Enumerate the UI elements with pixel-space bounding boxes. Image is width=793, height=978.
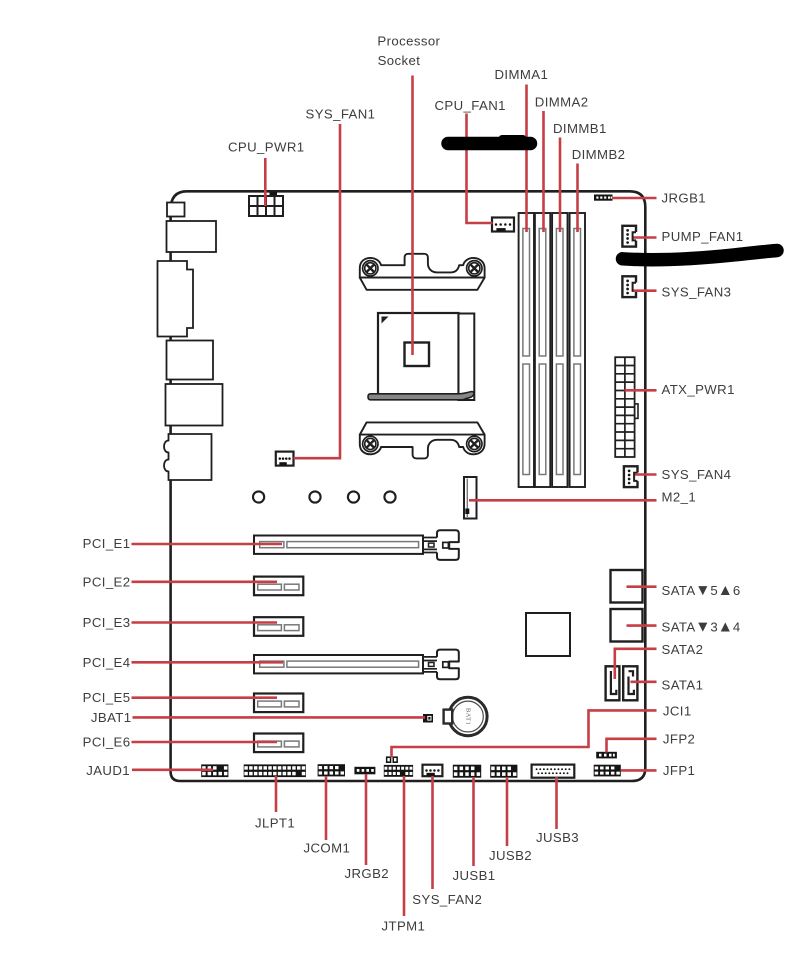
leader line JLPT1 [275, 776, 278, 812]
io port A [167, 203, 185, 217]
memory slot DIMMA2 [535, 213, 550, 487]
svg-text:BAT1: BAT1 [464, 708, 471, 725]
memory slot DIMMB1 [552, 213, 567, 487]
svg-text:JUSB3: JUSB3 [536, 830, 579, 845]
svg-text:SATA▼5▲6: SATA▼5▲6 [662, 582, 741, 599]
fan header CPU_FAN1 [492, 218, 514, 232]
socket center square [405, 343, 430, 367]
connector SATA 5/6 [611, 570, 643, 603]
fan header PUMP_FAN1 [622, 226, 637, 247]
svg-text:PCI_E1: PCI_E1 [83, 536, 131, 551]
slot PCI_E2 x1 [254, 577, 303, 596]
svg-text:DIMMB1: DIMMB1 [553, 121, 607, 136]
chipset [526, 613, 570, 656]
leader line JUSB2 [506, 777, 509, 846]
leader line JTPM1 [403, 776, 406, 916]
header JTPM1 [384, 765, 413, 777]
leader line DIMMB1 [559, 138, 562, 233]
slot PCI_E1 x16 [254, 530, 459, 560]
connector SATA2 [606, 666, 620, 700]
leader line JUSB1 [472, 777, 475, 866]
svg-text:SATA▼3▲4: SATA▼3▲4 [662, 619, 741, 636]
slot PCI_E5 x1 [254, 694, 303, 713]
svg-text:JFP1: JFP1 [663, 763, 695, 778]
svg-text:DIMMA2: DIMMA2 [535, 94, 589, 109]
svg-text:PUMP_FAN1: PUMP_FAN1 [662, 229, 744, 244]
header JAUD1 [201, 764, 228, 777]
svg-text:JTPM1: JTPM1 [382, 919, 426, 934]
svg-text:PCI_E3: PCI_E3 [83, 615, 131, 630]
svg-text:CPU_PWR1: CPU_PWR1 [228, 139, 304, 154]
svg-text:SATA1: SATA1 [662, 677, 704, 692]
leader line SATA2 [615, 649, 657, 679]
svg-text:DIMMA1: DIMMA1 [495, 67, 549, 82]
mounting hole 2 [309, 491, 320, 502]
header JUSB2 [490, 765, 517, 778]
leader line DIMMA1 [525, 85, 528, 233]
leader line PCI_E3 [132, 621, 278, 624]
fan header SYS_FAN3 [622, 276, 637, 297]
socket base bar [368, 392, 474, 400]
bracket screw top-left [363, 261, 378, 276]
leader line PCI_E6 [132, 741, 278, 744]
svg-text:JFP2: JFP2 [663, 732, 695, 747]
leader line SYS_FAN1 [294, 124, 341, 458]
jumper JBAT1 [423, 714, 433, 723]
svg-text:Processor: Processor [377, 34, 440, 49]
mounting hole 4 [384, 491, 395, 502]
svg-text:JAUD1: JAUD1 [86, 763, 130, 778]
svg-text:PCI_E4: PCI_E4 [83, 655, 131, 670]
leader line JCOM1 [325, 776, 328, 840]
fan header SYS_FAN4 [624, 466, 639, 487]
header JRGB1 [594, 195, 613, 201]
leader line JUSB3 [555, 777, 558, 829]
processor socket body [378, 313, 474, 400]
svg-text:Socket: Socket [378, 53, 421, 68]
memory slot DIMMB2 [570, 213, 585, 487]
leader line SATA 5/6 [627, 585, 657, 588]
svg-text:JRGB1: JRGB1 [662, 191, 707, 206]
header JCI1 pins [386, 756, 398, 763]
board outline [171, 191, 646, 781]
svg-text:CPU_FAN1: CPU_FAN1 [435, 98, 506, 113]
slot PCI_E3 x1 [254, 617, 303, 636]
svg-text:SYS_FAN3: SYS_FAN3 [662, 285, 732, 300]
svg-text:JRGB2: JRGB2 [345, 866, 390, 881]
svg-text:PCI_E2: PCI_E2 [83, 574, 131, 589]
svg-text:JCI1: JCI1 [663, 704, 692, 719]
connector SATA1 [623, 666, 637, 700]
slot PCI_E6 x1 [254, 734, 303, 753]
svg-text:JUSB1: JUSB1 [453, 868, 496, 883]
leader line PCI_E1 [132, 543, 283, 546]
svg-text:PCI_E5: PCI_E5 [83, 690, 131, 705]
leader line SATA1 [631, 680, 657, 683]
svg-text:PCI_E6: PCI_E6 [83, 735, 131, 750]
svg-text:M2_1: M2_1 [662, 490, 697, 505]
svg-text:DIMMB2: DIMMB2 [572, 147, 626, 162]
leader line SYS_FAN4 [635, 473, 657, 476]
svg-text:JCOM1: JCOM1 [304, 840, 351, 855]
leader line PUMP_FAN1 [634, 236, 657, 239]
leader line JFP1 [621, 769, 657, 772]
connector ATX_PWR1 [615, 357, 638, 457]
leader line JAUD1 [132, 768, 213, 771]
header JUSB1 [453, 765, 481, 778]
mounting hole 3 [348, 491, 359, 502]
header JCOM1 [318, 764, 345, 776]
leader line Processor Socket [411, 76, 414, 356]
leader line ATX_PWR1 [625, 389, 657, 392]
mounting hole 1 [253, 491, 264, 502]
svg-text:SYS_FAN1: SYS_FAN1 [306, 107, 376, 122]
fan header SYS_FAN2 [423, 765, 443, 777]
slot PCI_E4 x16 [254, 650, 459, 680]
header JFP1 [594, 765, 621, 777]
io port E [166, 384, 223, 426]
svg-text:JBAT1: JBAT1 [91, 710, 132, 725]
cpu cooler bracket top [360, 254, 485, 290]
header JRGB2 [354, 767, 375, 775]
battery BAT1 [444, 697, 487, 735]
svg-text:JLPT1: JLPT1 [255, 816, 295, 831]
bracket screw bottom-right [467, 436, 482, 451]
connector SATA 3/4 [611, 609, 643, 642]
svg-text:JUSB2: JUSB2 [489, 848, 532, 863]
leader line DIMMA2 [542, 111, 545, 232]
header JUSB3 [532, 765, 575, 778]
cpu cooler bracket bottom [360, 422, 485, 458]
marker redaction 2 [623, 251, 778, 260]
leader line PCI_E2 [132, 580, 278, 583]
leader line PCI_E5 [132, 696, 278, 699]
leader line DIMMB2 [576, 164, 579, 233]
leader line SYS_FAN3 [634, 289, 657, 292]
connector CPU_PWR1 [249, 192, 283, 216]
io port F audio jacks [164, 434, 212, 480]
memory slot DIMMA1 [519, 213, 534, 487]
leader line M2_1 [469, 499, 657, 502]
leader line JRGB2 [365, 774, 368, 865]
bracket screw top-right [467, 261, 482, 276]
bracket screw bottom-left [363, 436, 378, 451]
leader line SYS_FAN2 [431, 776, 434, 889]
io port B [167, 221, 217, 252]
svg-text:ATX_PWR1: ATX_PWR1 [662, 382, 735, 397]
connector M2_1 [464, 477, 477, 519]
leader line SATA 3/4 [627, 624, 657, 627]
io port C [158, 261, 194, 337]
leader line JCI1 [392, 710, 657, 757]
leader line JFP2 [607, 739, 657, 753]
fan header SYS_FAN1 [276, 452, 294, 466]
leader line CPU_FAN1 [467, 114, 493, 224]
marker redaction 1 [448, 138, 531, 143]
svg-text:SYS_FAN4: SYS_FAN4 [662, 467, 732, 482]
header JFP2 [596, 752, 617, 759]
leader line JBAT1 [133, 716, 426, 719]
header JLPT1 [244, 764, 306, 777]
leader line CPU_PWR1 [264, 158, 267, 206]
svg-text:SYS_FAN2: SYS_FAN2 [412, 892, 482, 907]
leader line JRGB1 [612, 197, 657, 200]
svg-text:SATA2: SATA2 [662, 642, 704, 657]
leader line PCI_E4 [132, 661, 284, 664]
io port D [167, 341, 214, 380]
